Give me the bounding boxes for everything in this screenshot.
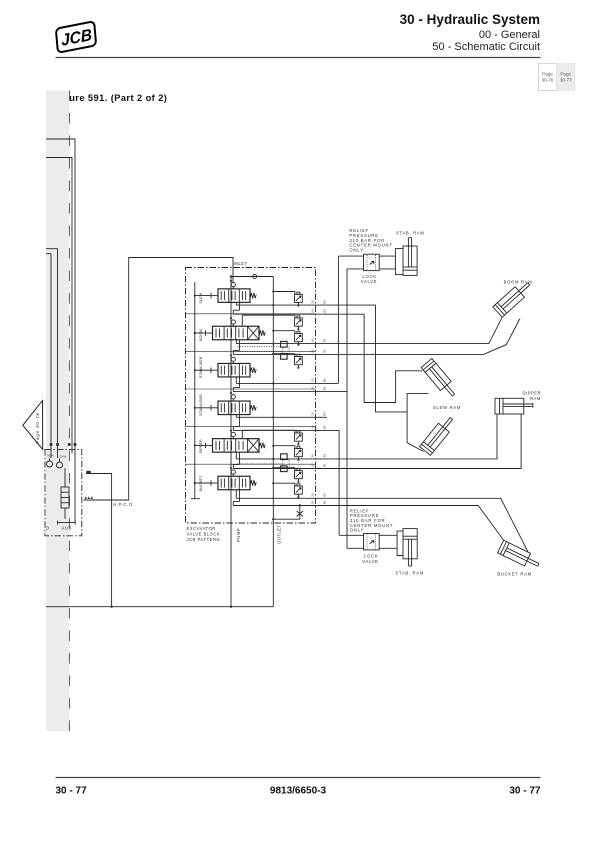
aux filter cartridge <box>64 468 66 487</box>
valve section SLEW <box>211 289 256 303</box>
wire left feed 1 <box>46 139 75 445</box>
svg-text:D: D <box>46 526 49 531</box>
port line A DIPPER <box>235 452 237 459</box>
port line B BOOM <box>239 340 241 351</box>
svg-text:26: 26 <box>311 349 315 353</box>
boom ram <box>493 279 534 318</box>
dipper port wires <box>317 414 498 459</box>
port line A BOOM <box>235 340 237 344</box>
svg-text:9813/6650-3: 9813/6650-3 <box>270 786 327 797</box>
HPCO feed wire <box>83 258 233 501</box>
svg-text:B1: B1 <box>323 425 327 429</box>
svg-text:LOCK: LOCK <box>363 274 377 279</box>
port line B DIPPER <box>239 452 241 464</box>
tank return wire <box>86 474 112 607</box>
pump gallery <box>230 277 232 607</box>
port line B SLEW <box>239 302 241 310</box>
anti-cavitation check valves boom section <box>281 341 288 347</box>
svg-text:BUCKET RAM: BUCKET RAM <box>497 572 531 577</box>
svg-text:Page: Page <box>560 72 571 77</box>
lock valve 1 <box>338 255 363 257</box>
outlet gallery <box>272 277 274 607</box>
anti-cavitation check valves dipper section <box>281 454 288 460</box>
svg-text:ONLY: ONLY <box>350 528 364 533</box>
svg-text:00 - General: 00 - General <box>479 29 540 41</box>
excavator valve block boundary <box>186 268 316 524</box>
relief valve SLEW <box>295 292 303 302</box>
svg-text:INLET: INLET <box>234 261 248 266</box>
svg-text:B1: B1 <box>323 500 327 504</box>
svg-text:26: 26 <box>311 338 315 342</box>
svg-text:26: 26 <box>311 500 315 504</box>
junction dots at page break <box>50 443 53 446</box>
svg-text:Figure 591. (Part 2 of 2): Figure 591. (Part 2 of 2) <box>54 93 167 103</box>
header rule <box>56 57 541 59</box>
bucket ram <box>498 540 542 571</box>
svg-text:B1: B1 <box>323 309 327 313</box>
svg-text:BOOM: BOOM <box>199 329 203 341</box>
svg-text:B1: B1 <box>323 453 327 457</box>
wire left feed 3 <box>46 249 58 458</box>
svg-text:B1: B1 <box>323 378 327 382</box>
dipper lock feed stub <box>317 430 340 535</box>
svg-text:BOOM RAM: BOOM RAM <box>504 280 533 285</box>
AAA hose marker <box>85 496 88 499</box>
wire left feed 2 <box>46 158 72 445</box>
relief valve BUCKET <box>295 468 303 478</box>
boom port wires <box>317 317 503 343</box>
svg-text:30-56: 30-56 <box>47 454 54 458</box>
stab ram 1 <box>395 249 403 275</box>
svg-text:26: 26 <box>311 493 315 497</box>
svg-text:26: 26 <box>311 309 315 313</box>
svg-text:AUX: AUX <box>62 526 72 531</box>
svg-text:VALVE: VALVE <box>362 559 378 564</box>
svg-text:B1: B1 <box>323 300 327 304</box>
svg-text:26: 26 <box>311 300 315 304</box>
stab port wires <box>317 382 339 384</box>
svg-text:RAM: RAM <box>530 396 541 401</box>
tank rail left <box>194 282 196 499</box>
relief valve DIPPER <box>295 431 303 441</box>
pilot line dotted dipper <box>238 458 281 460</box>
svg-text:B1: B1 <box>323 412 327 416</box>
svg-text:26: 26 <box>311 412 315 416</box>
grey band <box>46 91 69 732</box>
svg-text:SLEW RAM: SLEW RAM <box>433 405 461 410</box>
gauge circle 2 <box>57 462 63 468</box>
svg-text:B1: B1 <box>323 463 327 467</box>
svg-text:26: 26 <box>311 454 315 458</box>
port line B STABILISER <box>239 415 241 427</box>
slew ram cylinder 2 <box>420 414 457 455</box>
svg-text:26: 26 <box>311 425 315 429</box>
svg-text:26: 26 <box>311 386 315 390</box>
port line A BUCKET <box>235 490 237 499</box>
relief valve BUCKET <box>295 484 303 494</box>
valve section STABILISER <box>211 363 256 377</box>
page-break dashed line <box>69 91 71 732</box>
blocked port X drain <box>299 504 301 506</box>
bottom main line <box>46 606 273 608</box>
svg-text:30-77: 30-77 <box>560 78 572 83</box>
page tabs <box>539 64 557 91</box>
slew ram cylinder 1 <box>421 359 459 400</box>
svg-text:STABILISER: STABILISER <box>199 356 203 378</box>
svg-text:DIPPER: DIPPER <box>523 391 542 396</box>
svg-text:30 - Hydraulic System: 30 - Hydraulic System <box>400 12 540 27</box>
wire left feed 4 <box>46 254 51 458</box>
svg-text:B1: B1 <box>323 493 327 497</box>
svg-text:STABILISER: STABILISER <box>199 394 203 416</box>
svg-text:STAB. RAM: STAB. RAM <box>396 231 425 236</box>
svg-text:VALVE: VALVE <box>361 279 377 284</box>
port line B STABILISER <box>239 377 241 388</box>
dipper ram <box>495 398 524 414</box>
relief valve DIPPER <box>295 446 303 456</box>
svg-text:EXCAVATOR: EXCAVATOR <box>187 526 216 531</box>
relief valve STABILISER <box>295 354 303 364</box>
svg-text:OUTLET: OUTLET <box>277 524 282 544</box>
svg-text:30-76: 30-76 <box>542 78 554 83</box>
slew ram branch wires <box>407 394 429 452</box>
relief valve BOOM <box>295 331 303 341</box>
lock valve 2 <box>339 534 363 536</box>
svg-text:JCB PATTERN: JCB PATTERN <box>187 537 221 542</box>
port line A SLEW <box>235 302 237 305</box>
svg-text:26: 26 <box>311 378 315 382</box>
stabiliser bundle verticals <box>337 256 339 383</box>
inlet top line <box>231 276 273 278</box>
aux dash-dot boundary box <box>45 449 82 535</box>
aux port line <box>58 522 76 524</box>
port line A STABILISER <box>235 415 237 418</box>
port line A STABILISER <box>235 377 237 383</box>
svg-text:VALVE BLOCK: VALVE BLOCK <box>187 532 221 537</box>
svg-text:B1: B1 <box>323 338 327 342</box>
slew port wires <box>317 305 408 412</box>
valve section BUCKET <box>211 476 256 490</box>
bucket port wires <box>317 498 529 552</box>
svg-text:STAB. RAM: STAB. RAM <box>395 571 424 576</box>
svg-text:LOCK: LOCK <box>364 554 378 559</box>
section separator lines <box>186 313 316 315</box>
svg-text:30 - 77: 30 - 77 <box>509 786 541 797</box>
page 30-76 arrow <box>23 401 43 450</box>
svg-text:Page: Page <box>542 72 553 77</box>
valve section STABILISER <box>211 401 256 415</box>
port line B BUCKET <box>239 490 241 502</box>
svg-text:30-96: 30-96 <box>60 455 67 459</box>
svg-text:26: 26 <box>311 463 315 467</box>
gauge circle 1 <box>47 461 53 467</box>
valve section BOOM <box>206 326 266 340</box>
svg-text:30 - 77: 30 - 77 <box>56 786 88 797</box>
valve section DIPPER <box>206 439 266 453</box>
pilot line dotted boom <box>238 345 281 347</box>
svg-text:ONLY: ONLY <box>349 247 363 252</box>
stab ram 2 <box>397 531 403 555</box>
svg-text:B1: B1 <box>323 349 327 353</box>
svg-text:B1: B1 <box>323 386 327 390</box>
svg-text:SLEW: SLEW <box>199 292 203 303</box>
relief valve BOOM <box>295 316 303 326</box>
svg-text:50 - Schematic Circuit: 50 - Schematic Circuit <box>432 41 540 53</box>
wire drops into aux box <box>71 445 73 454</box>
svg-text:H.P.C.O: H.P.C.O <box>113 502 133 507</box>
svg-text:DIPPER: DIPPER <box>199 439 203 453</box>
JCB logo <box>56 21 96 52</box>
stab2 short stub <box>317 416 328 418</box>
svg-text:Page 30-76: Page 30-76 <box>35 412 40 444</box>
svg-text:PUMP: PUMP <box>236 528 241 542</box>
